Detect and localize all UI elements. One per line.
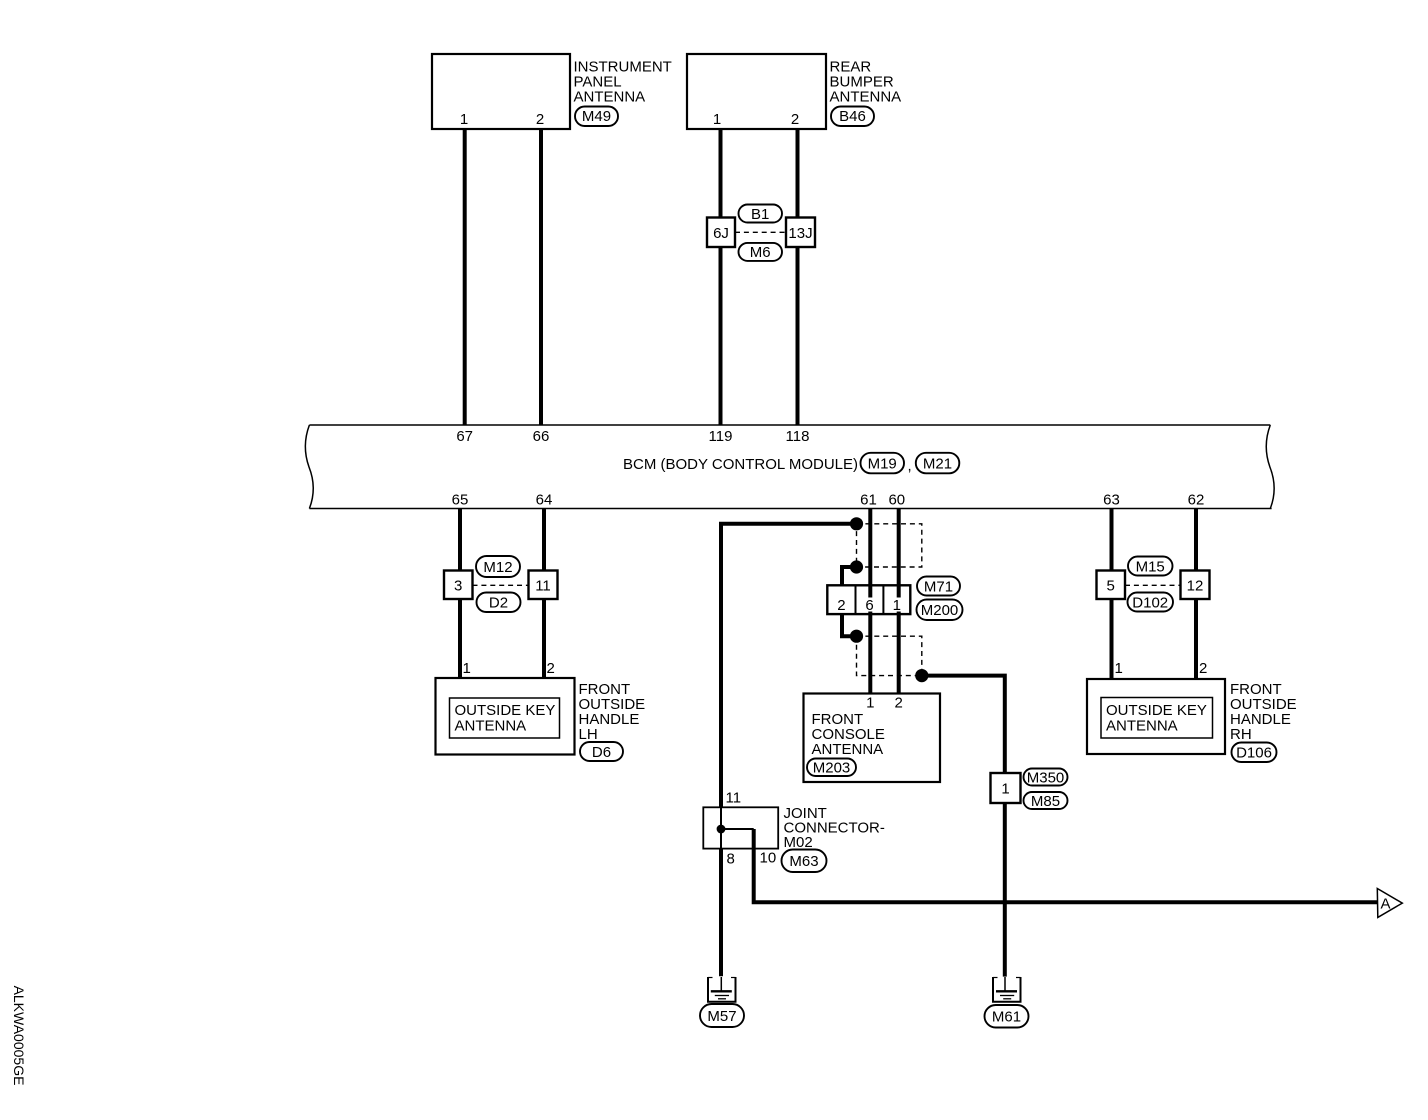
svg-text:11: 11 [535, 578, 551, 595]
connector D2 [477, 593, 521, 613]
rear bumper antenna box B46 [687, 54, 901, 129]
svg-text:B1: B1 [751, 206, 769, 223]
svg-text:119: 119 [709, 428, 733, 445]
connector M12 [476, 556, 520, 577]
BCM pin 66 [533, 428, 550, 445]
wire connector 12 to outside key antenna RH pin 2 [1194, 599, 1198, 679]
dashed connector mating line B1/M6 [735, 231, 786, 233]
svg-text:64: 64 [536, 492, 553, 509]
connector M61 [985, 1005, 1029, 1028]
svg-text:67: 67 [456, 428, 473, 445]
connector B46 [831, 107, 874, 127]
svg-text:118: 118 [786, 428, 810, 445]
drawing number ALKWA0005GE [11, 986, 27, 1086]
wire joint connector pin 10 to arrow A [754, 829, 1378, 902]
svg-text:63: 63 [1103, 492, 1120, 509]
connector M6 [739, 243, 783, 261]
wire BCM pin 61 to front console antenna pin 1 [868, 509, 872, 694]
junction dot shield stub [850, 560, 863, 573]
svg-text:M15: M15 [1136, 558, 1165, 575]
BCM band outline [305, 425, 1274, 509]
svg-text:1: 1 [460, 111, 468, 128]
svg-text:3: 3 [454, 578, 462, 595]
junction dot shield output [915, 669, 928, 682]
wire rear bumper antenna pin 2 to connector 13J [796, 129, 800, 218]
connector M57 [700, 1004, 744, 1027]
svg-text:65: 65 [452, 492, 469, 509]
junction dot upper shield [850, 517, 863, 530]
svg-text:M85: M85 [1031, 793, 1060, 810]
BCM pin 61 [860, 492, 877, 509]
arrow A [1377, 889, 1402, 918]
BCM pin 118 [786, 428, 810, 445]
wire BCM pin 62 to connector 12 [1194, 509, 1198, 571]
connector B1 [739, 205, 783, 223]
connector M203 [807, 759, 856, 777]
svg-text:M19: M19 [868, 455, 897, 472]
connector pin 5 [1097, 571, 1126, 600]
svg-text:M57: M57 [707, 1008, 736, 1025]
connector D6 [580, 742, 623, 761]
svg-text:ANTENNA: ANTENNA [455, 718, 527, 735]
wire connector 5 to outside key antenna RH pin 1 [1110, 599, 1114, 679]
svg-text:1: 1 [866, 695, 874, 712]
svg-text:ALKWA0005GE: ALKWA0005GE [11, 986, 27, 1086]
wire BCM pin 65 to connector 3 [458, 509, 462, 571]
connector pin 3 [444, 571, 473, 600]
connector block M71/M200 outline [827, 585, 910, 614]
svg-text:RH: RH [1230, 726, 1252, 743]
connector M63 [782, 850, 827, 873]
front console antenna box M203 [804, 694, 941, 783]
svg-text:66: 66 [533, 428, 550, 445]
svg-text:D6: D6 [592, 744, 611, 761]
svg-text:ANTENNA: ANTENNA [830, 89, 902, 106]
wire joint connector internal bus [721, 807, 754, 848]
svg-text:BCM (BODY CONTROL MODULE): BCM (BODY CONTROL MODULE) [623, 456, 858, 473]
BCM pin 60 [888, 492, 905, 509]
svg-text:6: 6 [865, 597, 873, 614]
connector block pin 1 [891, 597, 903, 614]
wire BCM pin 60 to front console antenna pin 2 [897, 509, 901, 694]
connector M19 [861, 453, 912, 475]
svg-text:1: 1 [1115, 660, 1123, 677]
svg-text:6J: 6J [713, 225, 729, 242]
svg-text:12: 12 [1187, 578, 1204, 595]
connector block pin 6 [864, 597, 876, 614]
svg-text:60: 60 [888, 492, 905, 509]
connector M85 [1024, 792, 1068, 810]
svg-text:8: 8 [727, 851, 735, 868]
svg-text:M21: M21 [923, 455, 952, 472]
svg-text:ANTENNA: ANTENNA [812, 741, 884, 758]
connector block pin 2 [836, 597, 848, 614]
svg-text:2: 2 [837, 597, 845, 614]
wire connector block pin 2 to lower shield [842, 614, 857, 636]
connector pin 11 [529, 571, 558, 600]
svg-text:62: 62 [1188, 492, 1205, 509]
svg-text:OUTSIDE KEY: OUTSIDE KEY [1106, 702, 1207, 719]
svg-text:M02: M02 [784, 834, 813, 851]
wire shield drain to joint connector pin 11 [721, 524, 857, 808]
connector pin 13J [786, 218, 815, 248]
shield dashed box lower [857, 636, 922, 675]
connector pin 1 M350 [991, 773, 1021, 803]
wire connector 6J to BCM pin 119 [719, 247, 723, 425]
BCM (BODY CONTROL MODULE) label [623, 456, 858, 473]
BCM pin 65 [452, 492, 469, 509]
svg-text:11: 11 [726, 790, 742, 807]
junction dot lower shield [850, 630, 863, 643]
wire BCM pin 63 to connector 5 [1110, 509, 1114, 571]
svg-text:10: 10 [760, 850, 777, 867]
svg-text:LH: LH [579, 726, 598, 743]
svg-text:A: A [1380, 896, 1390, 913]
svg-text:M203: M203 [813, 760, 851, 777]
svg-text:M12: M12 [483, 559, 512, 576]
svg-text:D106: D106 [1236, 745, 1272, 762]
svg-text:1: 1 [1001, 780, 1009, 797]
dashed connector mating line M12/D2 [473, 584, 529, 586]
svg-text:M49: M49 [582, 108, 611, 125]
svg-text:M61: M61 [992, 1009, 1021, 1026]
wire BCM pin 64 to connector 11 [542, 509, 546, 571]
connector M200 [917, 600, 963, 621]
ground M57 [707, 977, 737, 1002]
svg-text:M63: M63 [789, 853, 818, 870]
svg-text:2: 2 [536, 111, 544, 128]
svg-text:13J: 13J [788, 225, 812, 242]
connector M15 [1128, 557, 1173, 576]
wire shield stub to connector block pin 2 [842, 567, 857, 585]
svg-text:2: 2 [895, 695, 903, 712]
wire connector 3 to outside key antenna LH pin 1 [458, 599, 462, 678]
svg-text:5: 5 [1107, 578, 1115, 595]
svg-text:61: 61 [860, 492, 877, 509]
svg-text:,: , [908, 458, 912, 475]
wire connector 13J to BCM pin 118 [796, 247, 800, 425]
svg-text:1: 1 [893, 597, 901, 614]
svg-text:M6: M6 [750, 244, 771, 261]
connector M49 [575, 107, 618, 127]
BCM pin 64 [536, 492, 553, 509]
wire BCM pin 67 to instrument panel antenna pin 1 [463, 129, 467, 425]
joint connector M02 box [703, 790, 885, 868]
wire lower shield to connector M350 [922, 676, 1005, 773]
connector M21 [916, 453, 960, 474]
connector M71 [917, 577, 960, 596]
svg-text:D102: D102 [1132, 594, 1168, 611]
connector M350 [1024, 769, 1068, 787]
wire connector 11 to outside key antenna LH pin 2 [542, 599, 546, 678]
wire joint connector pin 8 to ground M57 [719, 849, 723, 977]
outside key antenna RH box D106 [1087, 660, 1297, 754]
outside key antenna LH box D6 [436, 660, 646, 755]
ground M61 [992, 977, 1022, 1002]
svg-text:M200: M200 [921, 602, 959, 619]
wire rear bumper antenna pin 1 to connector 6J [719, 129, 723, 218]
svg-text:M71: M71 [924, 578, 953, 595]
svg-text:D2: D2 [489, 595, 508, 612]
svg-text:ANTENNA: ANTENNA [574, 89, 646, 106]
wire BCM pin 66 to instrument panel antenna pin 2 [539, 129, 543, 425]
svg-text:2: 2 [791, 111, 799, 128]
BCM pin 119 [709, 428, 733, 445]
svg-text:2: 2 [547, 660, 555, 677]
svg-text:B46: B46 [839, 108, 866, 125]
svg-text:OUTSIDE KEY: OUTSIDE KEY [455, 702, 556, 719]
svg-text:1: 1 [713, 111, 721, 128]
BCM pin 63 [1103, 492, 1120, 509]
shield dashed box upper [857, 524, 922, 567]
junction dot joint connector [717, 825, 726, 834]
wire connector M350 to ground M61 [1003, 803, 1007, 977]
svg-text:M350: M350 [1027, 769, 1065, 786]
svg-text:ANTENNA: ANTENNA [1106, 718, 1178, 735]
svg-text:1: 1 [463, 660, 471, 677]
dashed connector mating line M15/D102 [1125, 584, 1181, 586]
BCM pin 62 [1188, 492, 1205, 509]
connector D102 [1128, 593, 1174, 612]
connector D106 [1232, 743, 1277, 763]
BCM pin 67 [456, 428, 473, 445]
svg-text:2: 2 [1199, 660, 1207, 677]
instrument panel antenna box M49 [432, 54, 672, 129]
connector pin 6J [707, 218, 735, 248]
connector pin 12 [1181, 571, 1210, 600]
